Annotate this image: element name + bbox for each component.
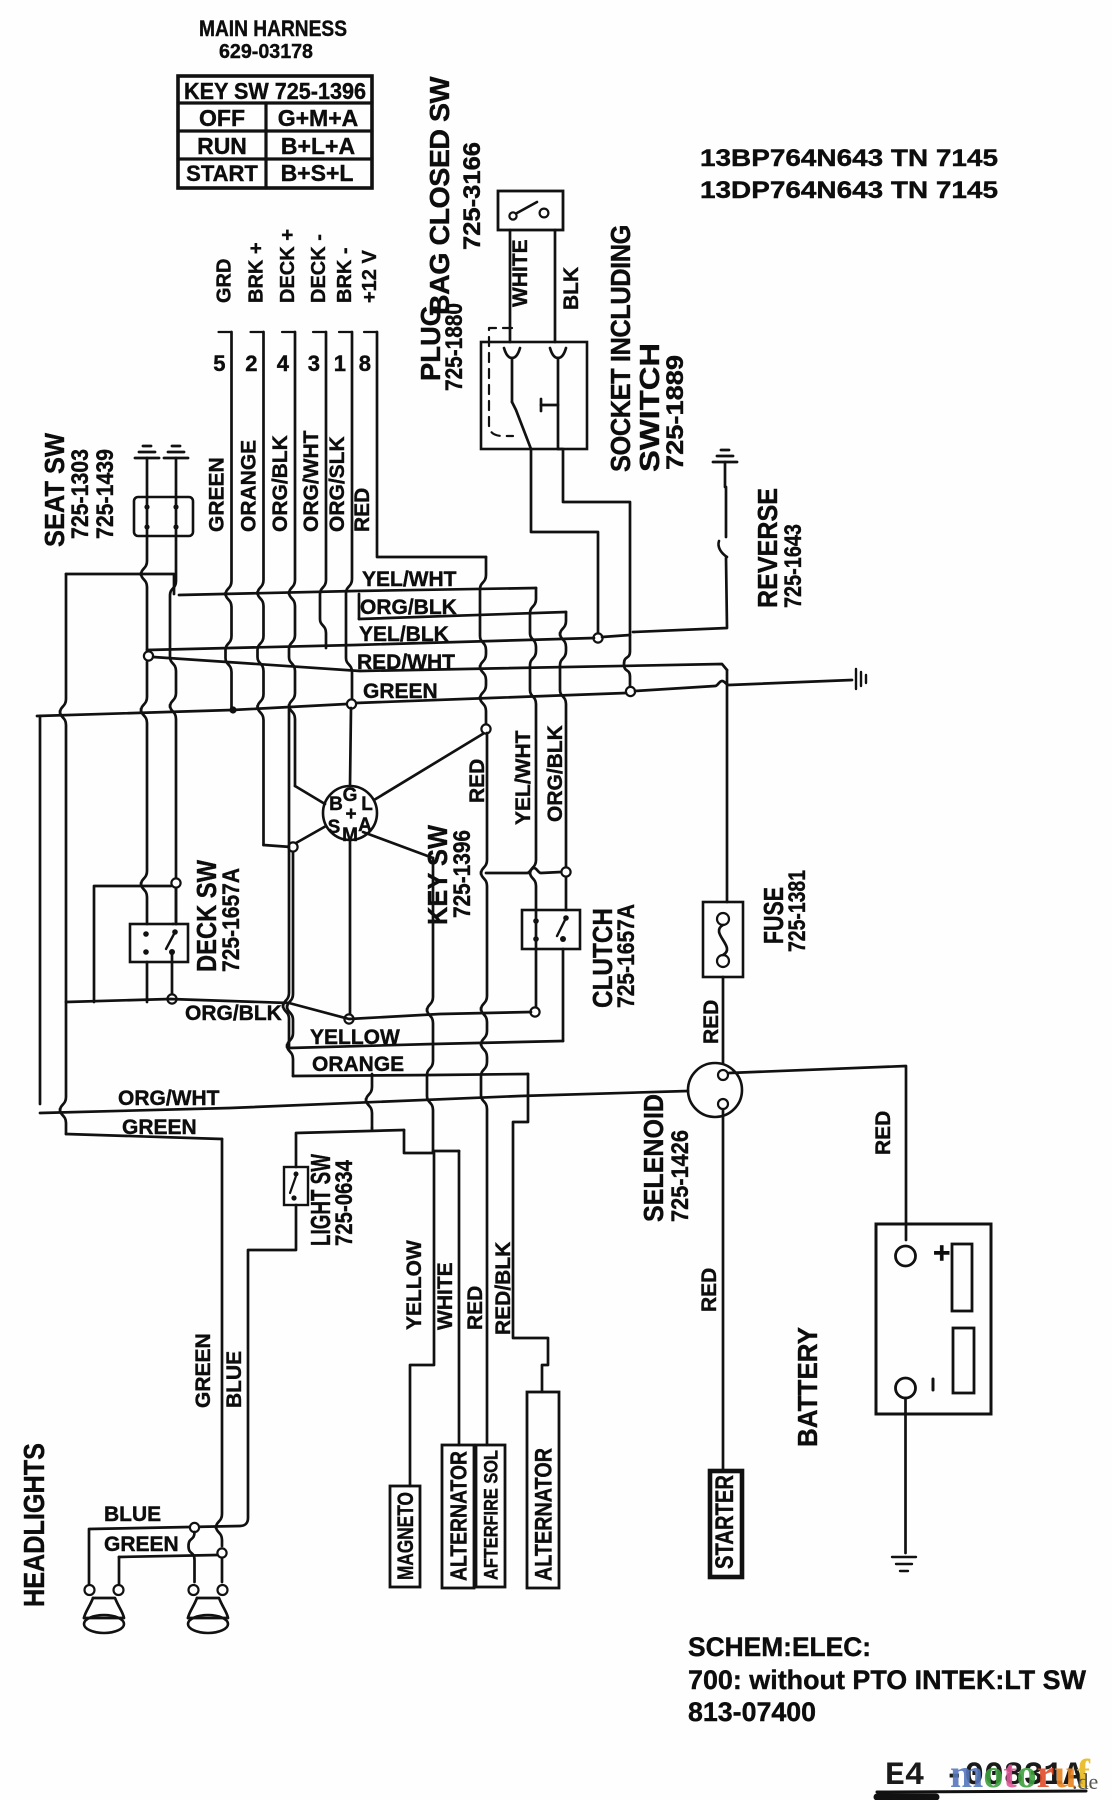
svg-text:ORG/BLK: ORG/BLK — [544, 725, 567, 822]
junction S wire — [288, 842, 297, 851]
svg-text:STARTER: STARTER — [711, 1475, 739, 1569]
wire red/blk engine — [513, 1074, 548, 1392]
wire yellow engine — [404, 1130, 434, 1486]
svg-text:ORG/WHT: ORG/WHT — [118, 1087, 220, 1110]
svg-text:SELENOID: SELENOID — [638, 1094, 669, 1222]
svg-text:START: START — [186, 161, 258, 186]
seat switch ground right — [175, 458, 178, 497]
wire BRK+ pin2 ORANGE — [258, 332, 264, 845]
svg-text:RED: RED — [351, 488, 374, 532]
svg-text:GREEN: GREEN — [363, 680, 438, 703]
svg-text:RED: RED — [464, 1286, 487, 1330]
junction clutch left — [530, 1007, 539, 1016]
seat switch 725-1303 box — [134, 497, 193, 536]
svg-text:BRK +: BRK + — [246, 242, 268, 303]
svg-text:725-1643: 725-1643 — [780, 524, 807, 608]
svg-text:13DP764N643 TN 7145: 13DP764N643 TN 7145 — [700, 177, 998, 204]
svg-text:725-1426: 725-1426 — [667, 1130, 694, 1222]
svg-text:1: 1 — [334, 351, 346, 376]
svg-text:SCHEM:ELEC:: SCHEM:ELEC: — [688, 1632, 871, 1662]
svg-text:629-03178: 629-03178 — [219, 41, 313, 63]
wire WHITE bag sw — [509, 230, 512, 342]
wire blue lamp bus — [89, 1205, 296, 1589]
svg-text:REVERSE: REVERSE — [752, 488, 783, 608]
battery — [876, 1224, 991, 1414]
svg-text:SOCKET INCLUDING: SOCKET INCLUDING — [605, 225, 636, 472]
seat switch ground left — [146, 458, 149, 497]
wire keysw G — [350, 708, 351, 786]
svg-text:ALTERNATOR: ALTERNATOR — [531, 1448, 558, 1581]
svg-text:RED: RED — [872, 1111, 895, 1155]
svg-text:725-1657A: 725-1657A — [218, 868, 245, 972]
battery ground symbol — [892, 1556, 916, 1558]
wire clutch right to yellow line — [562, 949, 565, 1041]
wire socket B down — [558, 449, 630, 686]
wire orange tap — [366, 1074, 372, 1128]
svg-text:725-1439: 725-1439 — [92, 449, 119, 539]
ground GREEN bus right — [855, 669, 857, 689]
svg-text:MAIN HARNESS: MAIN HARNESS — [199, 16, 347, 41]
wire clutch left to orgblk line — [535, 949, 538, 1007]
junction L wire — [481, 724, 490, 733]
svg-text:BAG CLOSED SW: BAG CLOSED SW — [424, 76, 455, 315]
junction deck on ORG/BLK — [167, 994, 176, 1003]
svg-text:L: L — [361, 794, 373, 815]
wire YEL/WHT to clutch — [530, 588, 536, 910]
svg-text:YELLOW: YELLOW — [403, 1240, 426, 1330]
fuse 725-1381 — [703, 902, 743, 977]
magneto box — [390, 1486, 420, 1587]
junction M on ORG/BLK line — [344, 1014, 353, 1023]
wire seat left leg — [146, 497, 149, 536]
svg-text:3: 3 — [308, 351, 320, 376]
svg-text:+: + — [933, 1237, 951, 1270]
bus ORG/BLK lower — [66, 999, 531, 1019]
svg-text:725-0634: 725-0634 — [331, 1159, 358, 1246]
bus ORANGE lower — [293, 1074, 528, 1076]
bus ORG/WHT long — [40, 1091, 688, 1113]
wire selenoid to starter / RED — [722, 1110, 725, 1470]
wire link to orgblk bus — [94, 886, 171, 1002]
headlight lamp left — [85, 1585, 95, 1595]
junction seat-right link — [171, 878, 180, 887]
svg-text:motoruf: motoruf — [950, 1751, 1091, 1796]
svg-text:SEAT SW: SEAT SW — [39, 432, 70, 547]
wire keysw L diag — [374, 732, 486, 800]
wire left orgblk drop — [60, 574, 66, 1134]
svg-text:GREEN: GREEN — [104, 1533, 179, 1556]
svg-text:ORG/BLK: ORG/BLK — [269, 435, 292, 532]
svg-text:WHITE: WHITE — [434, 1262, 457, 1330]
svg-text:BLK: BLK — [560, 267, 583, 310]
svg-text:GREEN: GREEN — [192, 1333, 215, 1408]
wire DECK- pin3 ORG/WHT — [320, 332, 326, 648]
bus GREEN mid — [37, 704, 347, 716]
svg-text:BRK -: BRK - — [334, 247, 356, 303]
svg-text:GREEN: GREEN — [206, 457, 229, 532]
wire green to lamps — [216, 1139, 222, 1546]
light switch 725-0634 — [284, 1167, 308, 1205]
svg-text:5: 5 — [213, 351, 225, 376]
svg-text:KEY SW 725-1396: KEY SW 725-1396 — [184, 78, 366, 104]
plug and socket connector — [481, 342, 587, 449]
svg-text:RUN: RUN — [197, 133, 247, 159]
svg-text:RED: RED — [698, 1268, 721, 1312]
svg-text:DECK -: DECK - — [308, 234, 330, 303]
svg-text:725-1889: 725-1889 — [662, 355, 689, 470]
svg-text:ORANGE: ORANGE — [238, 440, 261, 532]
starter box — [710, 1471, 742, 1577]
svg-text:G+M+A: G+M+A — [278, 105, 359, 131]
wire keysw M down — [349, 840, 352, 1014]
junction green lamp2 — [217, 1548, 226, 1557]
svg-text:BLUE: BLUE — [223, 1351, 246, 1408]
svg-text:YEL/BLK: YEL/BLK — [359, 623, 449, 646]
bus GREEN lower — [66, 1134, 222, 1139]
svg-text:RED/WHT: RED/WHT — [357, 651, 455, 674]
wire seat right to deck sw — [175, 889, 178, 924]
svg-text:725-1880: 725-1880 — [441, 303, 468, 391]
svg-text:8: 8 — [359, 351, 371, 376]
junction socket B on GREEN bus — [626, 687, 635, 696]
junction clutch top — [561, 867, 570, 876]
svg-text:ORG/BLK: ORG/BLK — [185, 1002, 282, 1025]
wire deck right leg — [172, 923, 175, 926]
svg-text:BLUE: BLUE — [104, 1503, 161, 1526]
wire DECK+ pin4 ORG/BLK — [289, 332, 295, 786]
svg-text:HEADLIGHTS: HEADLIGHTS — [19, 1443, 51, 1607]
wire BLK bag sw — [554, 230, 557, 342]
wire ORG/BLK to clutch — [560, 612, 566, 867]
wire blue lamp2 drop — [189, 1532, 195, 1582]
svg-text:700: without PTO INTEK:LT SW: 700: without PTO INTEK:LT SW — [688, 1665, 1087, 1695]
svg-text:YEL/WHT: YEL/WHT — [512, 730, 535, 825]
alternator box 2 — [527, 1392, 559, 1588]
svg-text:BATTERY: BATTERY — [792, 1327, 823, 1447]
svg-text:+: + — [345, 804, 356, 825]
wire socket A to YEL/BLK bus — [531, 449, 598, 633]
wire +12V pin8 RED — [377, 332, 486, 557]
svg-text:2: 2 — [245, 351, 257, 376]
svg-text:B+S+L: B+S+L — [281, 160, 354, 186]
svg-text:725-1657A: 725-1657A — [613, 904, 640, 1008]
svg-text:G: G — [343, 785, 358, 806]
key switch legend table — [178, 76, 372, 188]
svg-text:4: 4 — [277, 351, 290, 376]
junction seat-left RED/WHT — [144, 651, 153, 660]
title block lines — [877, 1791, 1086, 1792]
svg-text:MAGNETO: MAGNETO — [393, 1492, 418, 1580]
svg-text:813-07400: 813-07400 — [688, 1697, 816, 1727]
wire keysw B diag — [295, 786, 325, 804]
wire battery to ground — [904, 1398, 907, 1553]
svg-text:ORG/WHT: ORG/WHT — [300, 430, 323, 532]
bus ORG/BLK — [358, 594, 361, 619]
junction pin5 on GREEN bus — [229, 706, 236, 713]
svg-text:DECK +: DECK + — [277, 229, 299, 303]
bus YEL/BLK — [147, 638, 594, 650]
wire left green drop — [39, 716, 42, 1104]
wire keysw A diag — [363, 832, 433, 858]
wire deck bottom — [171, 954, 174, 994]
wire BRK- pin1 ORG/SLK — [346, 332, 352, 702]
svg-text:AFTERFIRE SOL: AFTERFIRE SOL — [481, 1450, 502, 1580]
deck switch 725-1657A — [130, 924, 188, 962]
alternator box 1 — [442, 1445, 474, 1588]
wire keysw S diag — [296, 826, 326, 843]
wire green lamp bus — [119, 1555, 217, 1557]
bus RED/WHT — [153, 657, 727, 671]
junction blue lamp2 — [190, 1523, 199, 1532]
svg-text:ALTERNATOR: ALTERNATOR — [445, 1451, 471, 1581]
key switch circle 725-1396 — [323, 786, 377, 840]
wire light sw top — [296, 1130, 404, 1167]
wire GRD pin5 GREEN — [226, 332, 232, 708]
svg-text:YELLOW: YELLOW — [310, 1026, 400, 1049]
junction socket A on YEL/BLK — [593, 633, 602, 642]
svg-text:OFF: OFF — [199, 105, 245, 131]
svg-text:S: S — [328, 817, 341, 838]
svg-text:RED: RED — [466, 759, 489, 803]
svg-text:GREEN: GREEN — [122, 1116, 197, 1139]
wire fuse to selenoid / RED — [722, 977, 725, 1063]
svg-text:725-1381: 725-1381 — [784, 870, 811, 952]
wire selenoid to battery — [729, 1066, 906, 1240]
svg-text:ORG/SLK: ORG/SLK — [326, 436, 349, 532]
wire yellow left up — [283, 709, 289, 1048]
wire keysw S down — [287, 852, 293, 1076]
svg-text:B+L+A: B+L+A — [281, 133, 355, 159]
reverse switch ground — [724, 462, 727, 487]
wire red link to clutch — [486, 868, 561, 873]
bag closed switch 725-3166 — [498, 191, 563, 230]
bus YELLOW lower — [289, 1041, 563, 1048]
wire RED engine — [481, 733, 487, 1445]
wire green lamp2 drop — [221, 1558, 224, 1582]
svg-text:+12 V: +12 V — [359, 250, 381, 303]
wire deck left below — [146, 962, 149, 1002]
svg-text:B: B — [329, 794, 343, 815]
svg-text:RED: RED — [700, 1000, 723, 1044]
svg-text:.de: .de — [1072, 1769, 1098, 1794]
svg-text:725-3166: 725-3166 — [459, 142, 486, 250]
svg-text:725-1303: 725-1303 — [67, 449, 94, 539]
seat switch terminals — [144, 504, 149, 509]
svg-text:RED/BLK: RED/BLK — [492, 1242, 515, 1335]
svg-text:13BP764N643 TN 7145: 13BP764N643 TN 7145 — [700, 145, 998, 172]
svg-text:SWITCH: SWITCH — [634, 343, 665, 472]
clutch switch 725-1657A — [522, 910, 580, 949]
selenoid 725-1426 — [688, 1063, 742, 1117]
wire keysw A down / WHITE — [427, 858, 433, 1151]
svg-text:WHITE: WHITE — [509, 239, 532, 307]
junction keysw G on GREEN bus — [347, 699, 356, 708]
svg-text:725-1396: 725-1396 — [449, 830, 476, 918]
wire clutch top feed — [565, 877, 568, 910]
svg-text:ORANGE: ORANGE — [312, 1053, 404, 1076]
reverse switch 725-1643 — [725, 487, 728, 537]
svg-text:GRD: GRD — [214, 259, 236, 303]
afterfire sol box — [476, 1445, 505, 1587]
svg-text:ORG/BLK: ORG/BLK — [360, 596, 457, 619]
svg-text:YEL/WHT: YEL/WHT — [362, 568, 457, 591]
wire seat left to deck sw — [141, 662, 147, 924]
wire seat right leg — [175, 497, 178, 536]
wire RED/WHT to fuse — [726, 670, 729, 902]
headlight lamp right — [189, 1585, 199, 1595]
bus YEL/WHT — [179, 588, 536, 595]
